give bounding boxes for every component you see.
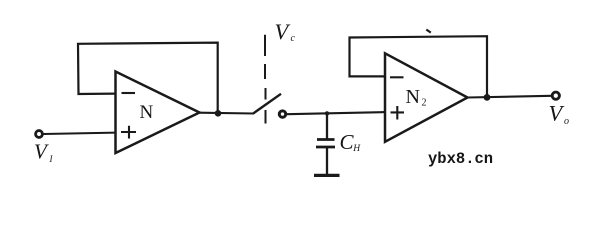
- input terminal V_I: [36, 131, 43, 138]
- op-amp N2 plus input sign: [391, 106, 405, 120]
- node junction at capacitor top: [325, 111, 329, 115]
- svg-text:c: c: [291, 33, 296, 44]
- ground: [314, 174, 340, 177]
- svg-text:V: V: [549, 101, 565, 126]
- stray tick mark above N2 feedback: [426, 30, 431, 33]
- svg-text:V: V: [34, 140, 49, 164]
- svg-text:N: N: [140, 102, 154, 123]
- capacitor C_H bottom lead: [326, 147, 328, 175]
- op-amp N2 minus input sign: [390, 76, 404, 78]
- node junction at N1 output: [215, 110, 222, 117]
- switch S blade: [253, 94, 281, 114]
- svg-text:H: H: [352, 144, 361, 154]
- op-amp N1 plus input sign: [121, 126, 136, 139]
- op-amp U2 (N2) triangle: [385, 53, 468, 142]
- wire switch control (dashed) from V_c: [264, 35, 267, 124]
- svg-text:o: o: [564, 116, 569, 127]
- node junction at N2 output: [484, 94, 491, 101]
- svg-text:I: I: [49, 154, 54, 164]
- svg-text:N: N: [406, 86, 420, 108]
- wire switch to op-amp N2 + input: [287, 112, 385, 114]
- svg-text:2: 2: [422, 98, 427, 109]
- output terminal V_o: [552, 92, 559, 99]
- svg-text:V: V: [275, 19, 291, 44]
- op-amp N1 minus input sign: [122, 92, 136, 94]
- capacitor C_H top lead: [326, 113, 328, 139]
- wire feedback loop N2: output up, across top, down to minus input: [350, 36, 488, 95]
- capacitor C_H top plate: [317, 138, 335, 141]
- wire feedback loop N1: output up, across top, down to minus input: [78, 43, 218, 111]
- op-amp U1 (N) triangle: [116, 72, 200, 154]
- svg-text:ybx8.cn: ybx8.cn: [428, 150, 493, 168]
- wire input to op-amp N1 + input: [44, 133, 117, 134]
- wire N1 output to switch: [200, 112, 254, 115]
- switch right contact terminal: [279, 111, 285, 117]
- wire N2 output to terminal: [468, 96, 552, 98]
- capacitor C_H bottom plate: [316, 146, 335, 149]
